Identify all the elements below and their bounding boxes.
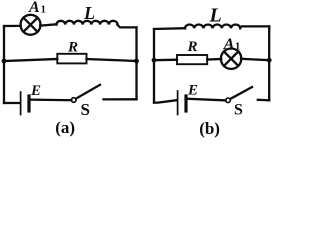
wire right vertical (b) [268,26,270,100]
svg-text:R: R [187,39,198,55]
lamp A1 circle (a) [21,15,41,35]
lamp A1 cross stroke 2 (b) [224,52,238,66]
wire switch to bottom-right corner (a) [104,98,137,100]
wire middle-left to resistor (a) [4,59,57,61]
lamp A1 cross stroke 1 (a) [24,18,38,32]
wire lamp to inductor (a) [40,24,56,25]
svg-text:E: E [30,83,41,99]
wire middle-left to resistor (b) [154,59,177,62]
battery E negative plate thin (b) [177,91,179,115]
wire left vertical (b) [153,29,155,103]
svg-text:A: A [28,0,40,16]
wire resistor to right junction (a) [87,59,137,61]
svg-text:(a): (a) [55,118,75,137]
wire top-left to lamp (a) [4,25,21,27]
battery E positive plate thick (a) [27,96,30,111]
resistor R (b) [177,55,207,64]
svg-text:L: L [83,3,95,23]
svg-text:S: S [81,100,90,119]
node junction right middle (a) [134,59,139,64]
switch S hinge circle (b) [226,98,231,103]
wire top-left to inductor (b) [154,27,185,30]
wire switch to bottom-right corner (b) [258,99,269,102]
switch S lever (b) [230,87,252,99]
wire bottom-left corner to battery (a) [4,102,20,104]
wire right vertical (a) [135,27,137,99]
node junction left middle (a) [2,59,7,64]
node junction left middle (b) [152,58,157,63]
svg-text:R: R [67,39,78,55]
svg-text:E: E [187,83,198,99]
lamp A1 cross stroke 2 (a) [24,18,38,32]
inductor L (b) [185,24,240,28]
lamp A1 cross stroke 1 (b) [224,52,238,66]
node junction right middle (b) [267,58,272,63]
wire bottom-left corner to battery (b) [154,100,177,102]
switch S lever (a) [76,85,100,99]
svg-text:L: L [209,4,222,26]
battery E positive plate thick (b) [184,96,187,111]
switch S hinge circle (a) [71,98,76,103]
wire resistor to lamp (b) [207,58,221,61]
wire inductor to top-right corner (b) [240,25,269,28]
wire battery to switch (b) [188,99,226,101]
resistor R (a) [57,54,86,64]
wire left vertical (a) [3,26,5,103]
svg-text:S: S [234,102,243,119]
lamp A1 circle (b) [221,49,241,69]
svg-text:A: A [223,36,235,53]
svg-text:1: 1 [235,42,240,53]
inductor L (a) [57,21,118,25]
wire lamp to right junction (b) [241,59,269,60]
svg-text:1: 1 [41,5,46,16]
battery E negative plate thin (a) [20,92,22,115]
wire battery to switch (a) [31,98,72,101]
svg-text:(b): (b) [199,119,220,138]
wire inductor to top-right corner (a) [118,25,137,28]
